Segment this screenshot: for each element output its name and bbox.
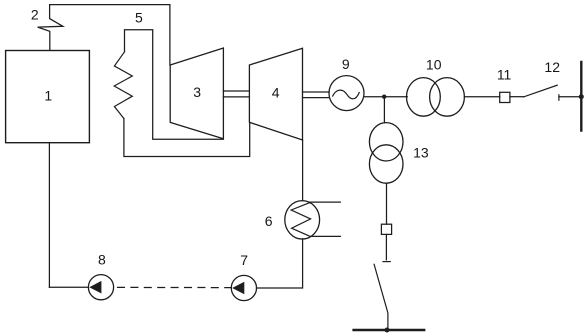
wire: transformer 10 to breaker 11 — [464, 96, 499, 98]
svg-text:7: 7 — [240, 252, 248, 268]
wire: turbine 4 exhaust to condenser — [302, 140, 304, 201]
disconnector 12 blade — [524, 85, 558, 97]
pump 8 — [88, 275, 113, 300]
wire: feedwater riser to boiler — [48, 143, 50, 287]
boiler 1 — [6, 51, 90, 143]
turbine 4 — [249, 48, 302, 140]
disconnector blade (aux branch) — [374, 264, 388, 330]
cooling water line upper — [309, 201, 340, 203]
transformer 10 — [407, 78, 441, 117]
svg-text:10: 10 — [426, 57, 442, 73]
busbar (aux / station service) — [354, 329, 425, 331]
disconnector fixed contact (aux branch) — [383, 261, 390, 263]
wire: pump 8 to boiler riser — [49, 286, 88, 288]
svg-text:5: 5 — [135, 10, 143, 26]
wire: condensate line to pump 7 — [257, 239, 303, 288]
circuit breaker (aux branch) — [381, 224, 391, 234]
wire: cold reheat pipe — [125, 30, 224, 140]
wire: hot reheat pipe to turbine 4 — [124, 119, 250, 157]
wire: breaker 11 to disconnector 12 — [510, 96, 524, 98]
condenser 6 — [285, 201, 320, 239]
reheater coil 5 — [114, 52, 132, 119]
disconnector 12 fixed contact — [558, 95, 560, 100]
pump 7 — [231, 275, 256, 300]
svg-text:3: 3 — [193, 84, 201, 100]
wire: dashed line pump 7 to pump 8 — [118, 286, 232, 288]
wire: junction to transformer 13 — [383, 97, 385, 123]
busbar (grid side) — [580, 62, 582, 131]
svg-text:2: 2 — [31, 7, 39, 23]
node: aux busbar junction dot — [385, 328, 390, 333]
shaft turbine4-generator — [303, 91, 330, 93]
svg-text:12: 12 — [544, 59, 560, 75]
cooling water line lower — [310, 235, 340, 237]
break symbol 2 — [38, 5, 63, 51]
wire: main steam line to turbine 3 — [50, 5, 170, 65]
turbine 3 — [170, 48, 223, 139]
svg-text:13: 13 — [413, 145, 429, 161]
generator 9 — [329, 76, 364, 111]
wire: generator output — [364, 96, 407, 98]
circuit breaker 11 — [500, 92, 510, 102]
svg-text:1: 1 — [44, 87, 52, 103]
node: busbar junction dot — [579, 94, 584, 99]
wire: disconnector 12 to busbar — [559, 96, 580, 98]
shaft turbine3-turbine4 — [223, 90, 249, 92]
condenser cooling coil — [291, 202, 310, 236]
transformer 13 — [369, 123, 403, 161]
svg-text:9: 9 — [342, 56, 350, 72]
svg-text:11: 11 — [497, 67, 512, 83]
wire: breaker to disconnector — [385, 234, 387, 259]
svg-text:8: 8 — [98, 251, 106, 267]
node: junction dot — [382, 95, 386, 99]
svg-text:4: 4 — [272, 84, 280, 100]
svg-text:6: 6 — [265, 213, 273, 229]
wire: transformer 13 to breaker — [386, 183, 388, 224]
